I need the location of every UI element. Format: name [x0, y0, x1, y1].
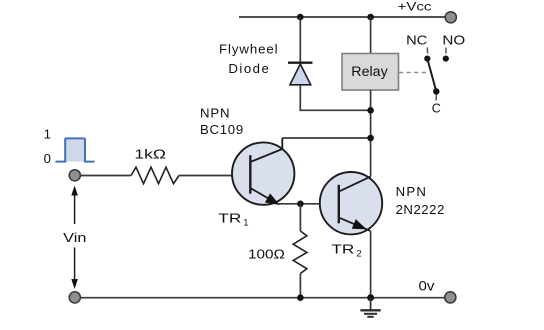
svg-text:NPN: NPN [396, 184, 426, 199]
svg-text:2N2222: 2N2222 [396, 202, 445, 217]
svg-text:C: C [432, 100, 441, 115]
wire diode anode to relay bottom [300, 85, 370, 111]
relay K1 [342, 54, 399, 91]
svg-text:NC: NC [406, 32, 428, 47]
node emitter-rail junction [367, 294, 374, 301]
diode D1 flywheel [288, 63, 313, 85]
terminal 0v [445, 292, 456, 303]
wire input to resistor [81, 175, 132, 177]
resistor R2 100Ω [293, 231, 307, 274]
wire relay top feed [370, 17, 372, 54]
switch lever arm [427, 59, 436, 92]
terminal +Vcc [445, 12, 456, 23]
svg-text:1kΩ: 1kΩ [134, 146, 166, 161]
terminal input [69, 170, 80, 181]
svg-text:TR: TR [218, 211, 241, 226]
wire top +Vcc rail [239, 16, 445, 18]
label NPN 2N2222 [396, 184, 445, 217]
wire 100ohm resistor top lead [299, 204, 301, 231]
svg-text:BC109: BC109 [200, 122, 243, 137]
label NPN BC109 [200, 106, 243, 138]
switch contact NO pole [443, 56, 449, 62]
dashed mechanical link relay to contacts [399, 71, 427, 73]
node TR1 emitter junction [297, 201, 304, 208]
wire TR2 emitter to ground rail [370, 231, 372, 298]
node relay / diode return junction [367, 107, 374, 114]
ground symbol [360, 298, 380, 317]
svg-text:Diode: Diode [228, 61, 268, 76]
svg-text:+Vcc: +Vcc [398, 0, 432, 14]
switch common lead [435, 95, 437, 101]
node TR1 collector junction [367, 135, 374, 142]
svg-text:Vin: Vin [63, 230, 86, 245]
wire 100ohm resistor bottom lead [299, 274, 301, 298]
transistor TR1 [232, 138, 294, 205]
svg-text:0v: 0v [419, 278, 435, 293]
resistor R1 1kΩ [131, 167, 179, 184]
svg-text:NPN: NPN [200, 106, 230, 121]
wire bottom 0v rail [75, 297, 445, 299]
svg-text:100Ω: 100Ω [248, 247, 285, 262]
wire relay bottom to collectors [370, 90, 372, 177]
pulse waveform input signal [56, 138, 95, 161]
label TR1 [218, 211, 248, 229]
Vin measurement arrow up [71, 186, 78, 225]
Vin measurement arrow down [71, 248, 78, 290]
wire resistor to TR1 base [179, 175, 250, 177]
label Flywheel Diode [219, 42, 278, 76]
svg-text:0: 0 [44, 151, 51, 166]
switch contact NC lead [426, 48, 428, 54]
svg-text:Relay: Relay [351, 64, 388, 79]
switch contact NO lead [445, 48, 447, 54]
label TR2 [331, 242, 361, 260]
wire diode cathode feed [299, 17, 301, 63]
svg-text:1: 1 [44, 127, 51, 142]
switch contact NC pole [424, 56, 430, 62]
svg-text:1: 1 [243, 218, 248, 229]
terminal bottom left [69, 292, 80, 303]
svg-text:2: 2 [356, 248, 361, 259]
svg-text:NO: NO [442, 32, 465, 47]
node resistor-rail junction [297, 294, 304, 301]
node relay-rail junction [367, 14, 374, 21]
svg-text:TR: TR [331, 242, 354, 257]
transistor TR2 [320, 172, 382, 234]
wire TR1 collector to node [282, 137, 370, 139]
switch common pole C [433, 88, 439, 94]
node diode-rail junction [297, 14, 304, 21]
wire TR1 emitter to TR2 base [277, 203, 339, 205]
svg-text:Flywheel: Flywheel [219, 42, 278, 57]
